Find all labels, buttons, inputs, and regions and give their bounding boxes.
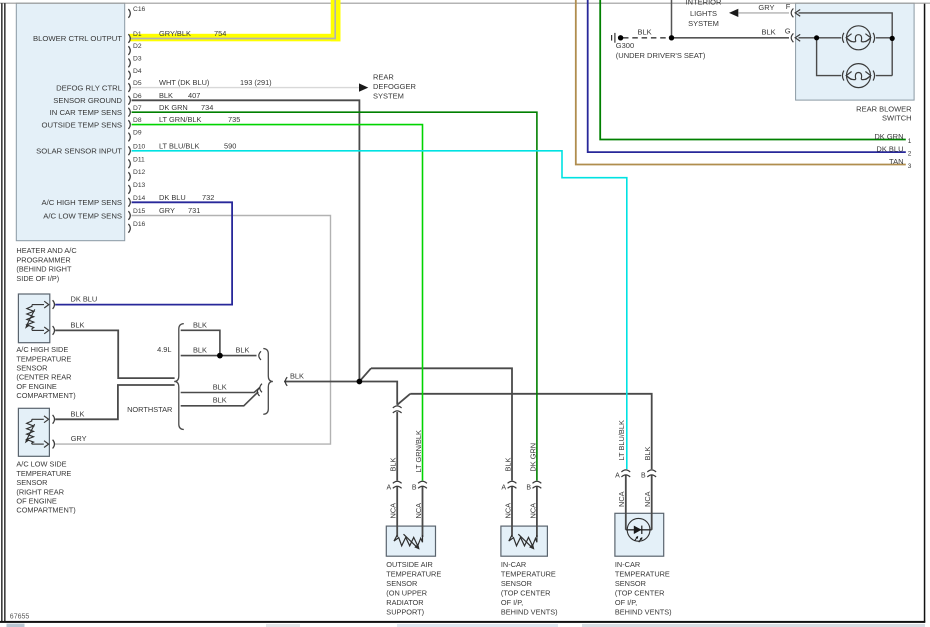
svg-text:D13: D13 bbox=[133, 182, 146, 189]
svg-text:(UNDER DRIVER'S SEAT): (UNDER DRIVER'S SEAT) bbox=[616, 51, 706, 60]
svg-text:(BEHIND RIGHT: (BEHIND RIGHT bbox=[16, 265, 72, 274]
svg-text:734: 734 bbox=[201, 103, 213, 112]
svg-text:D16: D16 bbox=[133, 221, 146, 228]
svg-text:NORTHSTAR: NORTHSTAR bbox=[127, 405, 172, 414]
svg-text:D15: D15 bbox=[133, 208, 146, 215]
svg-text:COMPARTMENT): COMPARTMENT) bbox=[16, 391, 75, 400]
svg-text:BLK: BLK bbox=[71, 321, 85, 330]
svg-text:HEATER AND A/C: HEATER AND A/C bbox=[16, 246, 77, 255]
svg-text:BLK: BLK bbox=[236, 346, 250, 355]
svg-text:GRY: GRY bbox=[758, 3, 774, 12]
svg-text:DK BLU: DK BLU bbox=[159, 193, 186, 202]
svg-text:DK GRN: DK GRN bbox=[159, 103, 188, 112]
svg-text:BLK: BLK bbox=[638, 27, 652, 36]
svg-text:SOLAR SENSOR INPUT: SOLAR SENSOR INPUT bbox=[36, 147, 122, 156]
svg-text:(TOP CENTER: (TOP CENTER bbox=[615, 588, 665, 597]
svg-text:SENSOR: SENSOR bbox=[16, 478, 47, 487]
svg-text:BEHIND VENTS): BEHIND VENTS) bbox=[501, 607, 558, 616]
svg-text:D10: D10 bbox=[133, 143, 146, 150]
svg-text:407: 407 bbox=[188, 91, 200, 100]
svg-text:BLOWER CTRL OUTPUT: BLOWER CTRL OUTPUT bbox=[33, 34, 122, 43]
svg-text:WHT (DK BLU): WHT (DK BLU) bbox=[159, 78, 209, 87]
svg-text:OF I/P,: OF I/P, bbox=[501, 598, 523, 607]
svg-text:F: F bbox=[786, 2, 791, 11]
svg-text:PROGRAMMER: PROGRAMMER bbox=[16, 255, 70, 264]
svg-text:731: 731 bbox=[188, 206, 200, 215]
svg-text:DEFOG RLY CTRL: DEFOG RLY CTRL bbox=[56, 84, 123, 93]
svg-text:1: 1 bbox=[908, 138, 912, 145]
svg-text:A: A bbox=[615, 473, 620, 480]
svg-text:B: B bbox=[641, 473, 646, 480]
svg-text:NCA: NCA bbox=[528, 503, 537, 519]
svg-text:SIDE OF I/P): SIDE OF I/P) bbox=[16, 274, 59, 283]
svg-text:(TOP CENTER: (TOP CENTER bbox=[501, 588, 551, 597]
svg-text:SYSTEM: SYSTEM bbox=[373, 92, 404, 101]
svg-text:OF I/P,: OF I/P, bbox=[615, 598, 637, 607]
svg-text:GRY: GRY bbox=[159, 206, 175, 215]
svg-text:BLK: BLK bbox=[290, 371, 304, 380]
svg-text:TEMPERATURE: TEMPERATURE bbox=[386, 569, 441, 578]
svg-text:732: 732 bbox=[202, 193, 214, 202]
svg-text:D2: D2 bbox=[133, 43, 142, 50]
svg-text:C16: C16 bbox=[133, 6, 146, 13]
svg-text:SUPPORT): SUPPORT) bbox=[386, 607, 424, 616]
svg-text:BLK: BLK bbox=[643, 446, 652, 460]
svg-text:BLK: BLK bbox=[503, 457, 512, 471]
svg-text:NCA: NCA bbox=[503, 503, 512, 519]
svg-text:IN-CAR: IN-CAR bbox=[501, 560, 526, 569]
svg-text:IN-CAR: IN-CAR bbox=[615, 560, 640, 569]
svg-text:IN CAR TEMP SENS: IN CAR TEMP SENS bbox=[50, 108, 122, 117]
svg-text:754: 754 bbox=[214, 29, 226, 38]
svg-text:BLK: BLK bbox=[213, 382, 227, 391]
svg-text:REAR: REAR bbox=[373, 72, 394, 81]
svg-text:COMPARTMENT): COMPARTMENT) bbox=[16, 506, 75, 515]
svg-text:DEFOGGER: DEFOGGER bbox=[373, 82, 417, 91]
svg-text:D1: D1 bbox=[133, 31, 142, 38]
svg-text:TAN: TAN bbox=[889, 157, 903, 166]
svg-text:LIGHTS: LIGHTS bbox=[690, 9, 717, 18]
svg-text:LT GRN/BLK: LT GRN/BLK bbox=[159, 115, 202, 124]
svg-text:D14: D14 bbox=[133, 195, 146, 202]
svg-text:RADIATOR: RADIATOR bbox=[386, 598, 423, 607]
svg-text:A/C LOW TEMP SENS: A/C LOW TEMP SENS bbox=[43, 211, 122, 220]
svg-text:BLK: BLK bbox=[193, 320, 207, 329]
svg-text:D12: D12 bbox=[133, 169, 146, 176]
svg-text:BLK: BLK bbox=[762, 28, 776, 37]
svg-text:SENSOR: SENSOR bbox=[501, 579, 532, 588]
svg-text:D7: D7 bbox=[133, 105, 142, 112]
svg-text:735: 735 bbox=[228, 115, 240, 124]
svg-text:TEMPERATURE: TEMPERATURE bbox=[501, 569, 556, 578]
svg-text:TEMPERATURE: TEMPERATURE bbox=[615, 569, 670, 578]
svg-text:DK BLU: DK BLU bbox=[876, 144, 903, 153]
svg-text:(RIGHT REAR: (RIGHT REAR bbox=[16, 487, 64, 496]
svg-text:BLK: BLK bbox=[71, 409, 85, 418]
svg-text:BLK: BLK bbox=[389, 457, 398, 471]
svg-text:LT BLU/BLK: LT BLU/BLK bbox=[617, 420, 626, 460]
svg-text:2: 2 bbox=[908, 150, 912, 157]
svg-text:B: B bbox=[526, 484, 531, 491]
svg-text:DK GRN: DK GRN bbox=[874, 132, 903, 141]
svg-text:590: 590 bbox=[224, 141, 236, 150]
svg-text:(CENTER REAR: (CENTER REAR bbox=[16, 373, 71, 382]
svg-text:REAR BLOWER: REAR BLOWER bbox=[856, 104, 912, 113]
svg-text:NCA: NCA bbox=[414, 503, 423, 519]
svg-text:D4: D4 bbox=[133, 68, 142, 75]
svg-text:INTERIOR: INTERIOR bbox=[686, 0, 722, 7]
svg-text:NCA: NCA bbox=[643, 491, 652, 507]
svg-text:NCA: NCA bbox=[617, 491, 626, 507]
svg-text:LT GRN/BLK: LT GRN/BLK bbox=[414, 430, 423, 473]
svg-text:TEMPERATURE: TEMPERATURE bbox=[16, 469, 71, 478]
svg-text:4.9L: 4.9L bbox=[157, 345, 171, 354]
svg-text:GRY: GRY bbox=[71, 434, 87, 443]
svg-text:D8: D8 bbox=[133, 117, 142, 124]
svg-text:SYSTEM: SYSTEM bbox=[688, 19, 719, 28]
svg-text:LT BLU/BLK: LT BLU/BLK bbox=[159, 141, 199, 150]
svg-text:67655: 67655 bbox=[10, 613, 30, 620]
svg-text:BLK: BLK bbox=[193, 346, 207, 355]
svg-text:DK GRN: DK GRN bbox=[528, 443, 537, 472]
svg-text:SENSOR: SENSOR bbox=[615, 579, 646, 588]
svg-text:OUTSIDE AIR: OUTSIDE AIR bbox=[386, 560, 433, 569]
svg-text:BLK: BLK bbox=[159, 91, 173, 100]
svg-text:SENSOR: SENSOR bbox=[386, 579, 417, 588]
svg-text:A/C HIGH TEMP SENS: A/C HIGH TEMP SENS bbox=[42, 198, 122, 207]
svg-text:TEMPERATURE: TEMPERATURE bbox=[16, 354, 71, 363]
svg-text:D6: D6 bbox=[133, 93, 142, 100]
svg-text:D11: D11 bbox=[133, 156, 145, 163]
svg-text:D9: D9 bbox=[133, 130, 142, 137]
svg-text:SWITCH: SWITCH bbox=[882, 114, 912, 123]
svg-text:OF ENGINE: OF ENGINE bbox=[16, 382, 56, 391]
svg-text:193 (291): 193 (291) bbox=[240, 78, 272, 87]
svg-text:A: A bbox=[387, 484, 392, 491]
svg-text:SENSOR GROUND: SENSOR GROUND bbox=[53, 96, 122, 105]
svg-text:G: G bbox=[785, 27, 791, 36]
svg-text:SENSOR: SENSOR bbox=[16, 364, 47, 373]
svg-text:GRY/BLK: GRY/BLK bbox=[159, 29, 191, 38]
svg-text:A/C LOW SIDE: A/C LOW SIDE bbox=[16, 460, 66, 469]
svg-text:D3: D3 bbox=[133, 56, 142, 63]
svg-text:DK BLU: DK BLU bbox=[71, 295, 98, 304]
svg-text:A/C HIGH SIDE: A/C HIGH SIDE bbox=[16, 345, 68, 354]
svg-text:OF ENGINE: OF ENGINE bbox=[16, 497, 56, 506]
svg-text:3: 3 bbox=[908, 163, 912, 170]
svg-text:G300: G300 bbox=[616, 41, 634, 50]
svg-text:B: B bbox=[412, 484, 417, 491]
svg-text:(ON UPPER: (ON UPPER bbox=[386, 588, 427, 597]
svg-text:OUTSIDE TEMP SENS: OUTSIDE TEMP SENS bbox=[42, 121, 122, 130]
svg-text:D5: D5 bbox=[133, 80, 142, 87]
svg-text:BEHIND VENTS): BEHIND VENTS) bbox=[615, 607, 672, 616]
svg-text:BLK: BLK bbox=[213, 396, 227, 405]
svg-text:A: A bbox=[501, 484, 506, 491]
svg-text:NCA: NCA bbox=[389, 503, 398, 519]
